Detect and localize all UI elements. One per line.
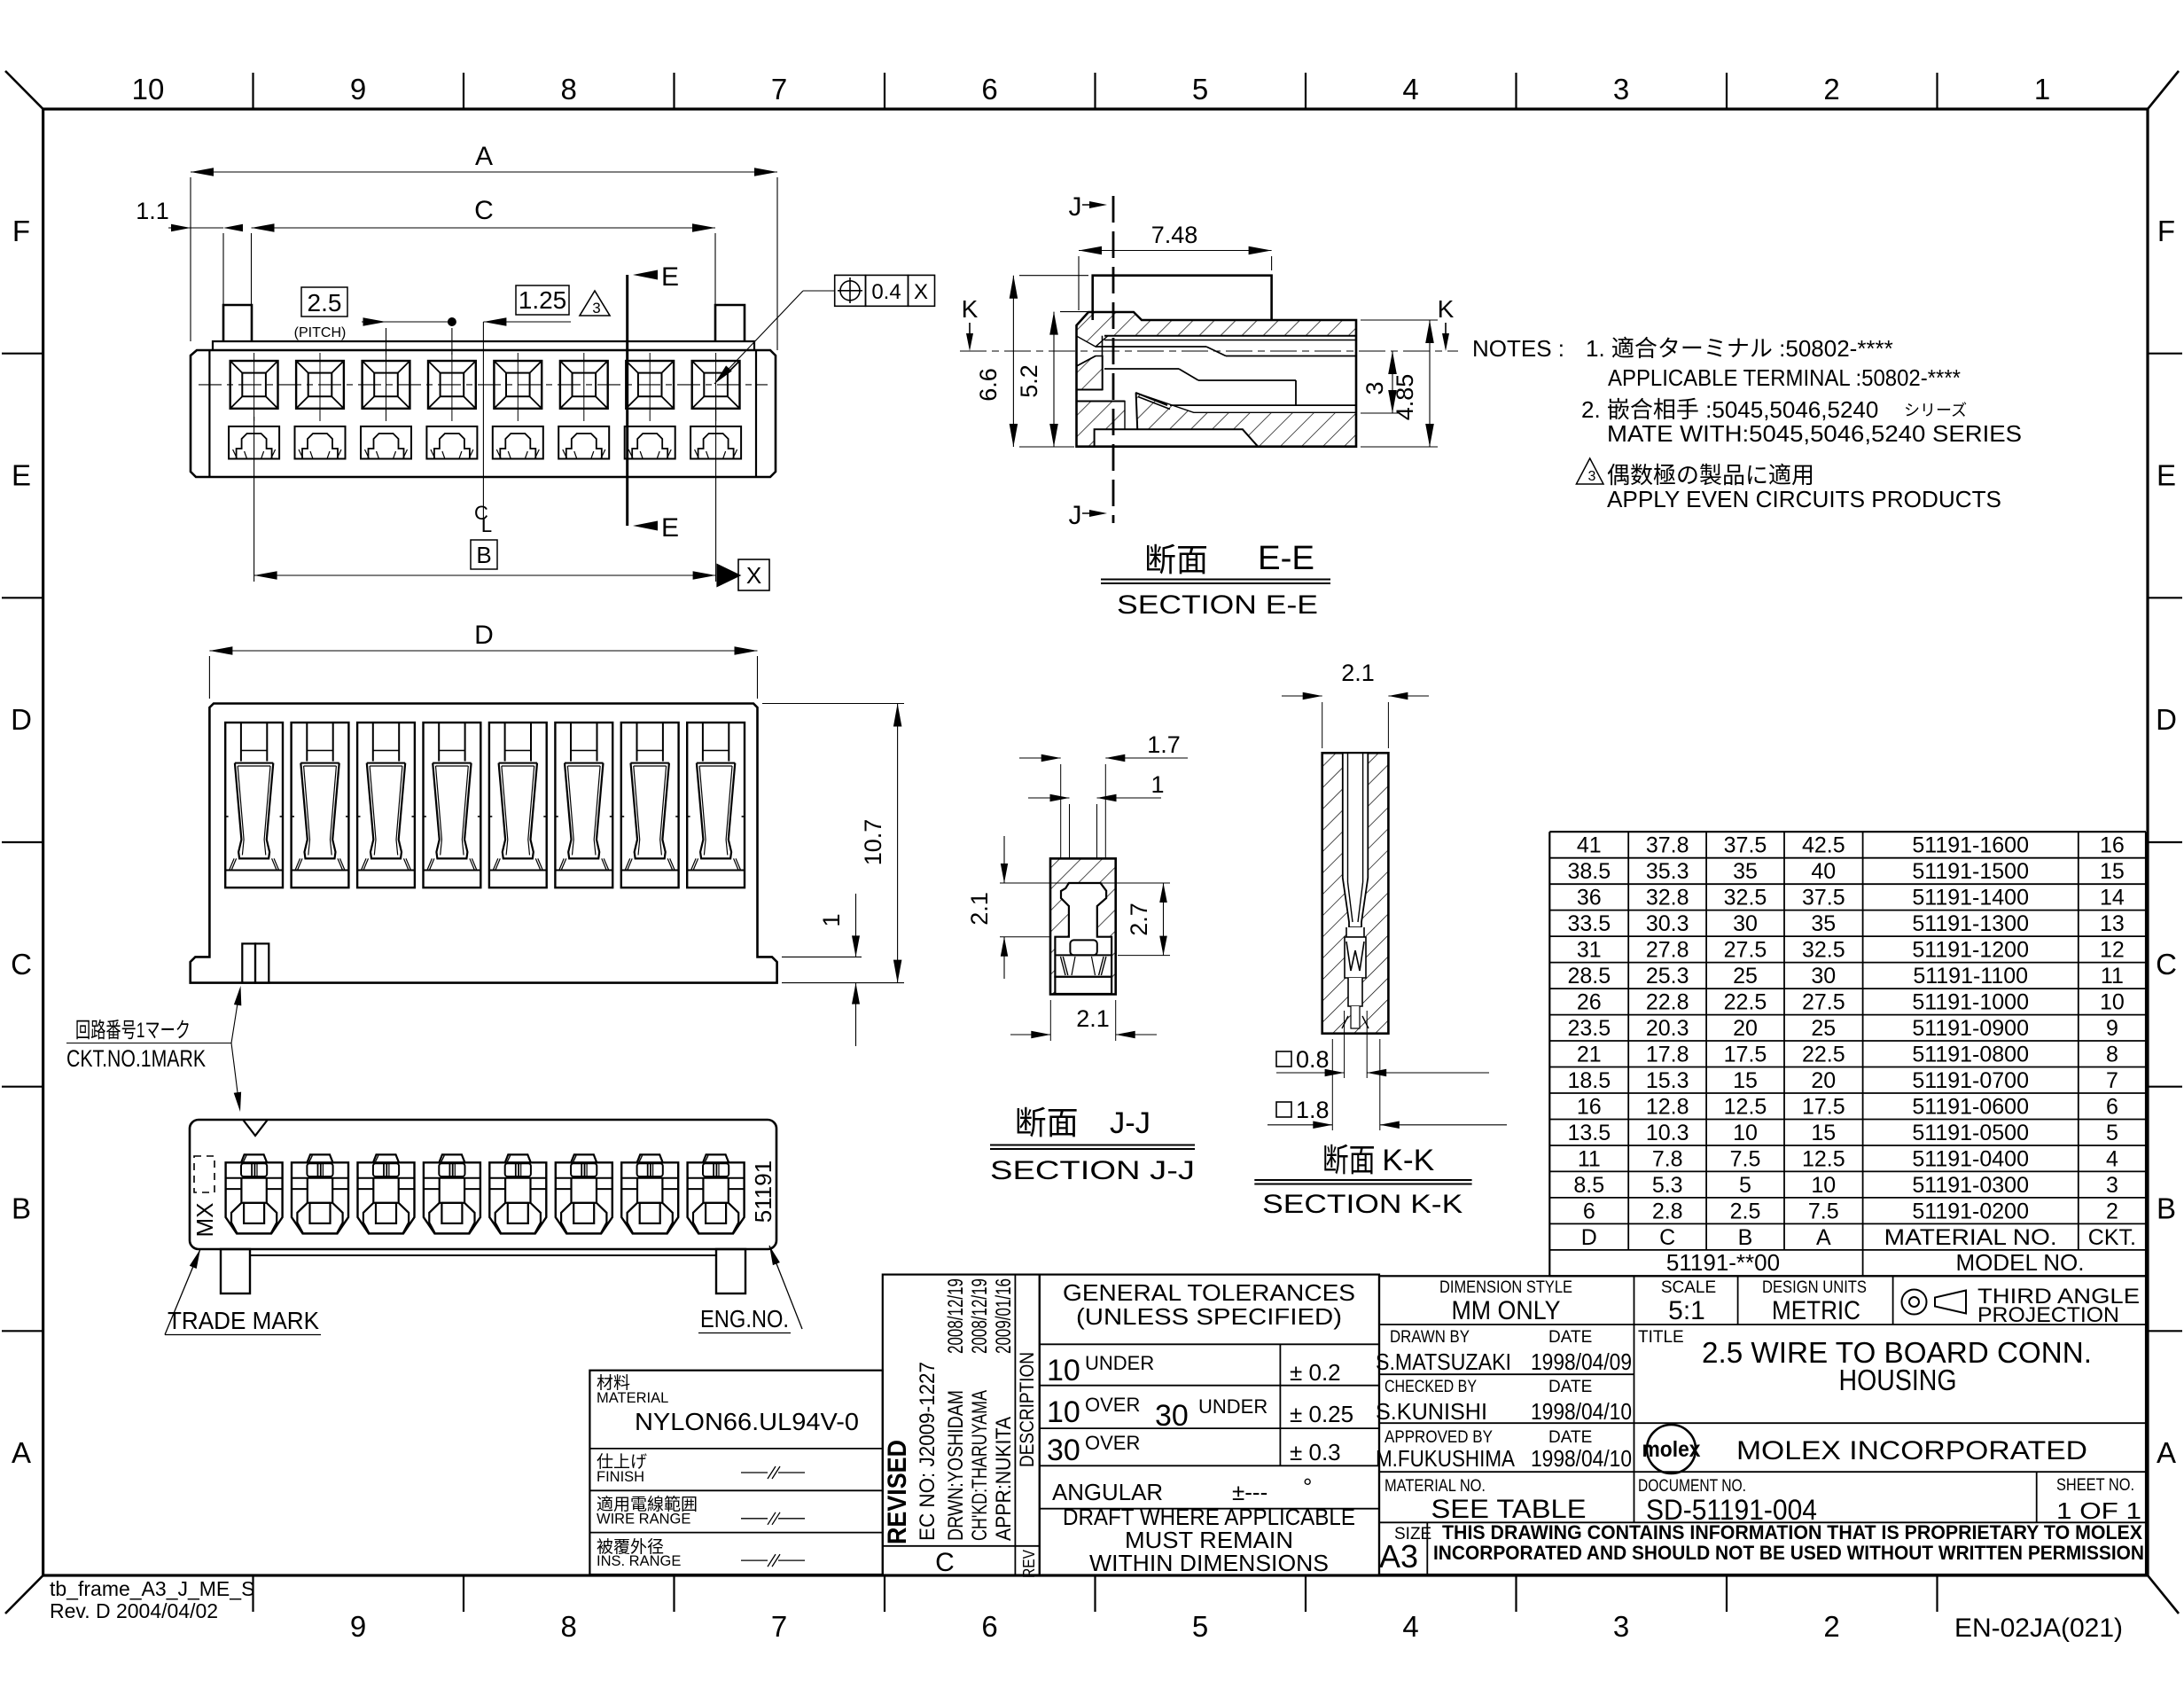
svg-text:MOLEX INCORPORATED: MOLEX INCORPORATED (1736, 1436, 2087, 1465)
svg-text:1.1: 1.1 (136, 198, 169, 224)
svg-text:37.5: 37.5 (1802, 886, 1845, 910)
svg-text:51191-1500: 51191-1500 (1912, 859, 2029, 884)
dimension C (252, 196, 716, 305)
svg-text:DIMENSION STYLE: DIMENSION STYLE (1439, 1278, 1572, 1297)
svg-text:K: K (962, 295, 979, 323)
front view cavity 1 (225, 723, 283, 887)
dimension square 0.8 (1276, 1011, 1489, 1078)
svg-text:2.5: 2.5 (308, 289, 342, 316)
svg-text:5:1: 5:1 (1668, 1296, 1705, 1325)
svg-text:8: 8 (561, 1610, 577, 1643)
svg-text:UNDER: UNDER (1085, 1352, 1154, 1374)
svg-text:22.5: 22.5 (1802, 1043, 1845, 1067)
top view cavity 8 square (692, 353, 740, 421)
svg-text:SECTION K-K: SECTION K-K (1262, 1190, 1462, 1219)
svg-text:シリーズ: シリーズ (1904, 402, 1967, 419)
svg-text:2.1: 2.1 (966, 892, 993, 926)
svg-text:0.4: 0.4 (871, 280, 901, 304)
svg-text:MODEL NO.: MODEL NO. (1956, 1249, 2085, 1276)
dimension 3 (1361, 351, 1400, 413)
top view cavity 3 lower slot (361, 426, 411, 459)
top view cavity 6 lower slot (558, 426, 609, 459)
svg-text:27.8: 27.8 (1646, 938, 1689, 963)
third angle projection symbol (1902, 1285, 2141, 1327)
svg-text:51191-0300: 51191-0300 (1912, 1173, 2029, 1198)
dimension 10.7 (762, 704, 904, 983)
svg-text:S.KUNISHI: S.KUNISHI (1376, 1398, 1487, 1425)
front view cavity 2 (292, 723, 349, 887)
svg-text:10: 10 (132, 73, 165, 105)
svg-text:2008/12/19: 2008/12/19 (968, 1278, 992, 1354)
front view cavity 8 (687, 723, 745, 887)
svg-text:3: 3 (1613, 73, 1629, 105)
top view cavity 4 square (428, 353, 476, 421)
svg-text:51191-1000: 51191-1000 (1912, 990, 2029, 1015)
top view cavity 1 square (230, 353, 278, 421)
svg-text:± 0.25: ± 0.25 (1290, 1401, 1353, 1427)
svg-text:SHEET NO.: SHEET NO. (2056, 1476, 2134, 1495)
bottom view housing outline (190, 1120, 776, 1249)
checked by cell (1376, 1378, 1632, 1425)
bottom view hidden keying mark (194, 1156, 214, 1192)
svg-text:11: 11 (2101, 964, 2124, 989)
svg-text:27.5: 27.5 (1724, 938, 1767, 963)
svg-text:5: 5 (1192, 73, 1208, 105)
svg-text:5: 5 (1739, 1173, 1751, 1198)
svg-text:5: 5 (1192, 1610, 1208, 1643)
svg-text:C: C (2156, 948, 2177, 981)
svg-text:Rev. D 2004/04/02: Rev. D 2004/04/02 (50, 1599, 218, 1622)
svg-text:1.7: 1.7 (1147, 731, 1181, 758)
svg-text:MM ONLY: MM ONLY (1452, 1296, 1561, 1325)
svg-text:6: 6 (1583, 1199, 1595, 1223)
svg-text:M.FUKUSHIMA: M.FUKUSHIMA (1376, 1445, 1516, 1472)
section E-E mating boss (1093, 276, 1272, 320)
svg-text:10.7: 10.7 (860, 819, 886, 866)
svg-text:0.8: 0.8 (1296, 1046, 1330, 1073)
svg-text:30.3: 30.3 (1646, 911, 1689, 936)
section K-K title (1254, 1142, 1471, 1219)
svg-text:42.5: 42.5 (1802, 833, 1845, 858)
section cut K-K left arrow (962, 295, 979, 351)
svg-text:30: 30 (1811, 964, 1836, 989)
svg-text:REV: REV (1020, 1550, 1038, 1578)
svg-text:REVISED: REVISED (883, 1440, 912, 1544)
svg-text:20.3: 20.3 (1646, 1016, 1689, 1041)
svg-text:51191-0400: 51191-0400 (1912, 1147, 2029, 1172)
scale cell (1661, 1278, 1716, 1325)
svg-text:L: L (481, 514, 492, 536)
svg-text:10: 10 (1047, 1354, 1080, 1387)
svg-text:J: J (1069, 192, 1082, 222)
svg-text:2.1: 2.1 (1076, 1005, 1110, 1032)
svg-text:21: 21 (1577, 1043, 1602, 1067)
svg-text:17.5: 17.5 (1802, 1095, 1845, 1120)
section E-E housing outline (1077, 312, 1357, 447)
section J-J terminal cavity (1055, 883, 1111, 977)
svg-text:15: 15 (1733, 1068, 1758, 1093)
svg-text:C: C (474, 196, 494, 225)
svg-text:33.5: 33.5 (1567, 911, 1611, 936)
svg-text:12.5: 12.5 (1724, 1095, 1767, 1120)
section E-E bottom foot notch (1095, 429, 1259, 446)
dimension 1.1 (136, 198, 243, 305)
dimension A (191, 142, 777, 350)
svg-text:J: J (1069, 501, 1082, 530)
svg-text:30: 30 (1733, 911, 1758, 936)
svg-text:A: A (2157, 1436, 2176, 1469)
top view cavity 2 square (296, 353, 344, 421)
svg-text:51191-**00: 51191-**00 (1666, 1249, 1780, 1276)
svg-text:MATERIAL: MATERIAL (597, 1390, 668, 1406)
svg-text:4: 4 (1402, 73, 1418, 105)
section E-E cavity internal lines (1077, 336, 1357, 429)
svg-text:9: 9 (2106, 1016, 2118, 1041)
top view left polarizing tab (223, 305, 252, 341)
svg-text:11: 11 (1578, 1147, 1601, 1172)
svg-text:8.5: 8.5 (1573, 1173, 1604, 1198)
svg-text:2.5: 2.5 (1730, 1199, 1761, 1223)
svg-text:D: D (1581, 1225, 1597, 1250)
svg-text:30: 30 (1155, 1399, 1189, 1433)
svg-text:22.5: 22.5 (1724, 990, 1767, 1015)
svg-text:OVER: OVER (1085, 1394, 1140, 1416)
svg-text:9: 9 (350, 73, 366, 105)
bottom view cavity 1 (226, 1154, 283, 1233)
dimension 2.1 section K-K (1282, 660, 1429, 748)
svg-text:6: 6 (2106, 1095, 2118, 1120)
notes text block (1472, 335, 2022, 447)
svg-text:D: D (2156, 703, 2177, 736)
document no cell (1638, 1477, 1817, 1526)
svg-text:4.85: 4.85 (1392, 374, 1418, 421)
svg-text:8: 8 (561, 73, 577, 105)
svg-text:J-J: J-J (1110, 1106, 1150, 1140)
svg-text:ANGULAR: ANGULAR (1052, 1479, 1163, 1505)
dimension D (209, 621, 757, 699)
svg-text:C: C (935, 1548, 955, 1577)
svg-text:16: 16 (1577, 1095, 1602, 1120)
svg-text:回路番号1マーク: 回路番号1マーク (75, 1019, 191, 1043)
svg-text:31: 31 (1577, 938, 1602, 963)
svg-text:B: B (1738, 1225, 1753, 1250)
front view cavity 4 (424, 723, 481, 887)
drawn by cell (1376, 1328, 1632, 1375)
svg-text:E: E (661, 262, 679, 292)
svg-text:51191-1600: 51191-1600 (1912, 833, 2029, 858)
svg-text:51191-1100: 51191-1100 (1913, 964, 2028, 989)
top view right polarizing tab (715, 305, 745, 341)
section cut K-K right arrow (1438, 295, 1455, 351)
svg-text:NOTES :: NOTES : (1472, 335, 1564, 362)
svg-text:D: D (11, 703, 32, 736)
svg-text:12.5: 12.5 (1802, 1147, 1845, 1172)
molex logo (1642, 1425, 1701, 1473)
label ENG.NO. (698, 1246, 802, 1333)
svg-text:1998/04/10: 1998/04/10 (1531, 1445, 1632, 1472)
svg-text:20: 20 (1811, 1068, 1836, 1093)
svg-text:MATERIAL NO.: MATERIAL NO. (1884, 1225, 2057, 1250)
svg-text:DRWN:YOSHIDAM: DRWN:YOSHIDAM (944, 1390, 968, 1541)
svg-text:1 OF 1: 1 OF 1 (2056, 1497, 2141, 1524)
section J-J title (990, 1105, 1195, 1185)
svg-text:DESCRIPTION: DESCRIPTION (1016, 1352, 1038, 1467)
svg-text:K-K: K-K (1382, 1144, 1434, 1177)
svg-text:INS. RANGE: INS. RANGE (597, 1553, 681, 1569)
svg-text:1.8: 1.8 (1296, 1097, 1330, 1123)
svg-text:E-E: E-E (1258, 540, 1314, 577)
front view circuit 1 keying boss (242, 943, 269, 982)
svg-text:14: 14 (2100, 886, 2125, 910)
dimension 6.6 (975, 276, 1088, 447)
section cut line J-J dashed (1069, 192, 1114, 530)
top view top wall strip (213, 341, 754, 350)
svg-text:2.1: 2.1 (1341, 660, 1375, 686)
svg-text:PROJECTION: PROJECTION (1977, 1303, 2119, 1327)
svg-text:32.8: 32.8 (1646, 886, 1689, 910)
svg-text:DESIGN UNITS: DESIGN UNITS (1762, 1278, 1867, 1297)
svg-text:15.3: 15.3 (1646, 1068, 1689, 1093)
svg-text:B: B (12, 1192, 31, 1225)
svg-text:38.5: 38.5 (1567, 859, 1611, 884)
svg-text:HOUSING: HOUSING (1839, 1364, 1957, 1396)
svg-text:SEE TABLE: SEE TABLE (1431, 1495, 1587, 1524)
svg-text:断面: 断面 (1322, 1142, 1376, 1178)
svg-text:13: 13 (2100, 911, 2125, 936)
section K-K terminal channel (1343, 753, 1369, 937)
svg-text:断面: 断面 (1015, 1105, 1079, 1141)
svg-text:± 0.3: ± 0.3 (1290, 1439, 1341, 1465)
svg-text:2008/12/19: 2008/12/19 (944, 1278, 968, 1354)
svg-text:3: 3 (2106, 1173, 2118, 1198)
svg-text:CH'KD:THARUYAMA: CH'KD:THARUYAMA (968, 1390, 992, 1541)
section E-E title (1101, 540, 1330, 620)
top view cavity 8 lower slot (690, 426, 741, 459)
size cell (1379, 1525, 1431, 1575)
svg-text:5: 5 (2106, 1121, 2118, 1145)
svg-text:MATE WITH:5045,5046,5240 SERIE: MATE WITH:5045,5046,5240 SERIES (1607, 420, 2022, 447)
svg-text:2. 嵌合相手 :5045,5046,5240: 2. 嵌合相手 :5045,5046,5240 (1581, 396, 1878, 423)
svg-text:51191-0700: 51191-0700 (1912, 1068, 2029, 1093)
approved by cell (1376, 1428, 1632, 1472)
svg-text:SECTION J-J: SECTION J-J (990, 1156, 1195, 1185)
svg-text:ENG.NO.: ENG.NO. (700, 1305, 789, 1332)
svg-text:6: 6 (981, 1610, 997, 1643)
bottom view cavity 7 (621, 1154, 678, 1233)
note triangle 3 (580, 291, 610, 316)
svg-text:2: 2 (1823, 73, 1839, 105)
svg-text:25: 25 (1733, 964, 1758, 989)
top view housing body outline (191, 350, 776, 477)
svg-text:51191-0200: 51191-0200 (1912, 1199, 2029, 1223)
svg-text:DRAWN BY: DRAWN BY (1390, 1328, 1470, 1347)
dimension 1 (1028, 771, 1165, 858)
svg-text:4: 4 (1402, 1610, 1418, 1643)
svg-text:51191-0900: 51191-0900 (1912, 1016, 2029, 1041)
svg-text:A: A (12, 1436, 31, 1469)
svg-text:7: 7 (771, 1610, 787, 1643)
dimension 1.7 (1019, 731, 1188, 858)
svg-text:3: 3 (1613, 1610, 1629, 1643)
label TRADE MARK (165, 1249, 321, 1335)
svg-text:26: 26 (1577, 990, 1602, 1015)
svg-text:37.5: 37.5 (1724, 833, 1767, 858)
svg-text:SCALE: SCALE (1661, 1278, 1716, 1297)
top view cavity 2 lower slot (295, 426, 346, 459)
svg-text:K: K (1438, 295, 1455, 323)
dimension 2.7 (1108, 883, 1170, 956)
svg-text:51191-0600: 51191-0600 (1912, 1095, 2029, 1120)
svg-text:16: 16 (2100, 833, 2125, 858)
feature control frame 0.4 X (714, 275, 935, 384)
svg-text:5.2: 5.2 (1016, 364, 1042, 398)
svg-text:28.5: 28.5 (1567, 964, 1611, 989)
svg-text:9: 9 (350, 1610, 366, 1643)
dimension 1.25 (483, 285, 571, 326)
zone numbers top (132, 73, 2051, 105)
svg-text:WIRE RANGE: WIRE RANGE (597, 1512, 690, 1528)
svg-text:17.5: 17.5 (1724, 1043, 1767, 1067)
svg-text:A3: A3 (1379, 1538, 1418, 1575)
svg-text:7.5: 7.5 (1730, 1147, 1761, 1172)
svg-text:THIS DRAWING CONTAINS INFORMAT: THIS DRAWING CONTAINS INFORMATION THAT I… (1442, 1521, 2142, 1543)
circuit size table (1549, 832, 2146, 1276)
dimension 1 standoff (782, 894, 862, 1046)
top view cavity 7 lower slot (625, 426, 675, 459)
front view cavity 5 (489, 723, 547, 887)
svg-text:E: E (661, 513, 679, 543)
bottom view cavity 8 (688, 1154, 745, 1233)
revision block (883, 1275, 1040, 1578)
svg-text:E: E (12, 459, 31, 492)
section E-E hatched top band (1077, 312, 1357, 347)
svg-text:10: 10 (2100, 990, 2125, 1015)
svg-text:40: 40 (1811, 859, 1836, 884)
top view cavity 4 lower slot (426, 426, 477, 459)
svg-text:OVER: OVER (1085, 1432, 1140, 1454)
svg-text:1: 1 (2034, 73, 2050, 105)
svg-text:EC NO: J2009-1227: EC NO: J2009-1227 (916, 1362, 940, 1541)
svg-text:20: 20 (1733, 1016, 1758, 1041)
section J-J hatched body (1050, 858, 1116, 994)
svg-text:APPROVED BY: APPROVED BY (1384, 1428, 1493, 1447)
svg-text:51191: 51191 (750, 1160, 776, 1223)
bottom view cavity 3 (358, 1154, 415, 1233)
svg-text:CKT.NO.1MARK: CKT.NO.1MARK (66, 1045, 206, 1072)
svg-text:51191-0500: 51191-0500 (1912, 1121, 2029, 1145)
bottom view cavity 6 (556, 1154, 612, 1233)
front view cavity 6 (555, 723, 612, 887)
svg-text:(PITCH): (PITCH) (294, 325, 347, 340)
svg-text:F: F (2157, 215, 2175, 247)
design units cell (1762, 1278, 1867, 1325)
svg-text:7: 7 (2106, 1068, 2118, 1093)
svg-text:EN-02JA(021): EN-02JA(021) (1954, 1614, 2123, 1643)
top view cavity 3 square (363, 353, 410, 421)
material no cell (1384, 1477, 1587, 1524)
svg-text:APPLICABLE TERMINAL :50802-***: APPLICABLE TERMINAL :50802-**** (1608, 364, 1961, 391)
svg-text:35: 35 (1733, 859, 1758, 884)
svg-text:30: 30 (1047, 1434, 1080, 1467)
svg-text:WITHIN DIMENSIONS: WITHIN DIMENSIONS (1089, 1550, 1329, 1576)
svg-text:偶数極の製品に適用: 偶数極の製品に適用 (1607, 462, 1814, 488)
svg-text:SECTION E-E: SECTION E-E (1117, 590, 1318, 620)
svg-text:22.8: 22.8 (1646, 990, 1689, 1015)
svg-text:2009/01/16: 2009/01/16 (992, 1278, 1016, 1354)
top view cavity 5 lower slot (493, 426, 543, 459)
svg-text:C: C (11, 948, 32, 981)
svg-text:10.3: 10.3 (1646, 1121, 1689, 1145)
svg-text:D: D (474, 621, 494, 650)
section E-E hatched left bottom block (1077, 402, 1126, 447)
svg-text:2: 2 (1823, 1610, 1839, 1643)
svg-text:DATE: DATE (1548, 1328, 1592, 1347)
dimension style cell (1439, 1278, 1572, 1325)
top view inner walls (208, 350, 210, 477)
svg-text:UNDER: UNDER (1198, 1395, 1267, 1418)
svg-text:8: 8 (2106, 1043, 2118, 1067)
front view cavity 7 (621, 723, 679, 887)
svg-text:7: 7 (771, 73, 787, 105)
note 3 triangle (1576, 458, 2001, 512)
svg-text:A: A (1816, 1225, 1831, 1250)
svg-text:1: 1 (1150, 771, 1164, 798)
svg-text:GENERAL TOLERANCES: GENERAL TOLERANCES (1063, 1279, 1355, 1306)
svg-text:DATE: DATE (1548, 1428, 1592, 1447)
svg-text:2.7: 2.7 (1126, 903, 1152, 936)
bottom view cavity 2 (292, 1154, 348, 1233)
dimension 5.2 (1016, 312, 1090, 447)
dimension B and datum X (254, 395, 769, 590)
svg-text:CKT.: CKT. (2088, 1225, 2136, 1250)
callout CKT.NO.1MARK (66, 986, 241, 1112)
svg-text:51191-0800: 51191-0800 (1912, 1043, 2029, 1067)
svg-text:±---: ±--- (1232, 1479, 1267, 1505)
title block (1379, 1276, 2146, 1575)
top view horizontal center line (199, 384, 768, 386)
svg-text:tb_frame_A3_J_ME_S: tb_frame_A3_J_ME_S (50, 1577, 254, 1600)
svg-text:S.MATSUZAKI: S.MATSUZAKI (1376, 1348, 1511, 1375)
svg-text:E: E (2157, 459, 2176, 492)
svg-text:FINISH: FINISH (597, 1469, 644, 1485)
svg-text:15: 15 (1811, 1121, 1836, 1145)
svg-text:断面: 断面 (1144, 542, 1208, 578)
connector center line CL (474, 322, 492, 536)
svg-text:17.8: 17.8 (1646, 1043, 1689, 1067)
svg-text:10: 10 (1733, 1121, 1758, 1145)
svg-text:13.5: 13.5 (1567, 1121, 1611, 1145)
svg-text:A: A (475, 142, 493, 171)
general tolerances block (1040, 1275, 1379, 1576)
section E-E hatched left lower wall (1077, 356, 1104, 390)
zone letters left (11, 215, 32, 1469)
svg-text:INCORPORATED AND SHOULD NOT BE: INCORPORATED AND SHOULD NOT BE USED WITH… (1433, 1542, 2144, 1564)
sheet no cell (2056, 1476, 2141, 1524)
svg-text:MX: MX (191, 1203, 218, 1238)
svg-text:NYLON66.UL94V-0: NYLON66.UL94V-0 (635, 1408, 859, 1435)
svg-text:51191-1300: 51191-1300 (1912, 911, 2029, 936)
top view cavity 7 square (626, 353, 674, 421)
svg-text:± 0.2: ± 0.2 (1290, 1359, 1341, 1386)
svg-text:APPR:NUKITA: APPR:NUKITA (992, 1417, 1016, 1541)
svg-text:MATERIAL NO.: MATERIAL NO. (1384, 1477, 1486, 1496)
dimension 4.85 (1361, 320, 1438, 447)
svg-text:7.5: 7.5 (1808, 1199, 1839, 1223)
svg-text:TRADE MARK: TRADE MARK (168, 1307, 319, 1334)
svg-text:51191-1400: 51191-1400 (1912, 886, 2029, 910)
svg-text:2: 2 (2106, 1199, 2118, 1223)
dimension 2.5 pitch (294, 287, 456, 355)
